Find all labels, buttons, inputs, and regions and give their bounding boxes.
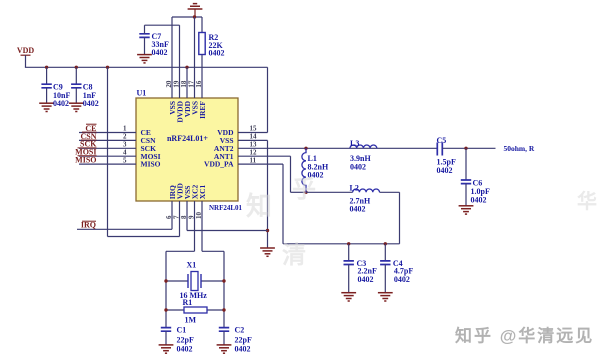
svg-text:NRF24L01: NRF24L01 [209,204,243,212]
svg-text:知: 知 [246,191,272,221]
svg-text:3: 3 [123,141,127,149]
svg-text:14: 14 [250,133,258,141]
svg-text:C5: C5 [437,136,447,145]
svg-text:VDD: VDD [17,46,35,55]
svg-text:16: 16 [195,80,203,88]
svg-text:4: 4 [123,148,127,156]
svg-text:0402: 0402 [152,48,168,57]
svg-text:X1: X1 [187,260,197,269]
svg-text:22pF: 22pF [177,335,194,344]
svg-text:0402: 0402 [437,166,453,175]
svg-text:1M: 1M [185,315,197,324]
svg-text:IRQ: IRQ [81,221,96,230]
svg-text:10: 10 [195,212,203,220]
svg-text:nRF24L01+: nRF24L01+ [167,134,208,143]
svg-text:0402: 0402 [350,163,366,172]
svg-text:11: 11 [250,156,257,164]
svg-text:0402: 0402 [350,205,366,214]
svg-text:0402: 0402 [177,345,193,354]
svg-text:清: 清 [282,242,306,269]
svg-text:U1: U1 [137,89,147,98]
svg-text:0402: 0402 [83,99,99,108]
svg-text:XC1: XC1 [198,184,207,199]
svg-text:C2: C2 [235,326,245,335]
svg-text:华: 华 [577,189,597,213]
svg-text:0402: 0402 [209,49,225,58]
svg-text:50ohm, R: 50ohm, R [504,144,535,153]
svg-text:2: 2 [123,133,127,141]
svg-text:R1: R1 [183,298,193,307]
svg-text:13: 13 [250,141,258,149]
svg-text:知乎 @华清远见: 知乎 @华清远见 [454,326,594,346]
svg-text:L2: L2 [350,183,359,192]
svg-text:5: 5 [123,156,127,164]
svg-text:0402: 0402 [394,275,410,284]
svg-text:1: 1 [123,125,127,133]
svg-text:15: 15 [250,125,258,133]
svg-text:0402: 0402 [471,195,487,204]
svg-text:乎: 乎 [292,176,316,203]
svg-text:L3: L3 [350,139,359,148]
svg-text:IREF: IREF [198,101,207,119]
svg-text:MISO: MISO [75,156,96,165]
svg-text:C1: C1 [177,326,187,335]
svg-text:0402: 0402 [53,99,69,108]
svg-text:VDD_PA: VDD_PA [204,160,234,169]
svg-text:22pF: 22pF [235,335,252,344]
svg-text:MISO: MISO [141,160,161,169]
svg-text:12: 12 [250,148,258,156]
svg-text:0402: 0402 [358,275,374,284]
svg-text:0402: 0402 [235,345,251,354]
